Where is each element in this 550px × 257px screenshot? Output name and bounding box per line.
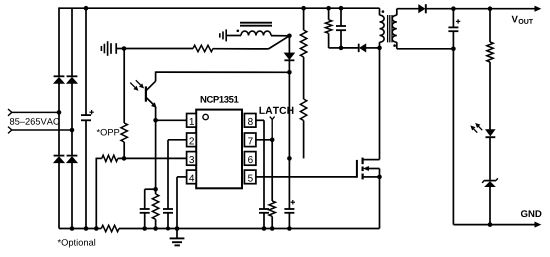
wire: R-fb to rail — [155, 219, 157, 228]
wire: AC input line 2 — [12, 129, 72, 131]
node: bulk cap to rail — [84, 226, 89, 231]
terminal arrow: AC line 1 — [8, 109, 12, 116]
wire: LED to zener — [489, 137, 491, 180]
wire: startup resistor to pin6 wire — [303, 121, 305, 159]
capacitor C-t (polarized, at pin 6 line) — [284, 209, 294, 213]
wire: pin 7 to latch node — [256, 139, 272, 141]
resistor R-hv2 (startup lower) — [300, 99, 306, 121]
label: *Optional — [58, 239, 95, 248]
wire: AC input line 1 — [12, 111, 59, 113]
capacitor C-p2 — [163, 209, 173, 213]
MOSFET Q1 channel segments — [362, 158, 364, 180]
ground: Vcc filter (rotated) with capacitor C-vcc — [101, 41, 107, 56]
node: secondary return junction — [451, 47, 456, 52]
node: drain/clamp/primary junction — [377, 46, 382, 51]
node: Vout rail to output cap — [451, 6, 456, 11]
light arrows: opto transistor — [130, 83, 135, 88]
node: C-fb rail junction — [142, 226, 147, 231]
node: emitter RC junction — [153, 187, 158, 192]
wire: Vaux to aux diode — [288, 36, 290, 53]
wire: Vcc node to series resistor — [124, 48, 193, 50]
wire: bridge left leg lower — [58, 163, 60, 229]
MOSFET Q1 drain connection — [364, 159, 380, 161]
label: Vout — [512, 16, 518, 23]
pin box: U1 pin 4 — [187, 170, 197, 184]
wire: clamp resistor lower stub — [328, 33, 330, 48]
wire: secondary return vertical — [452, 49, 454, 225]
wire: C-vcc2 to rail — [263, 213, 265, 229]
resistor R-cs (to pin 3) — [102, 155, 118, 161]
terminal arrow: Vout — [535, 6, 541, 11]
diode D3 (bridge, left lower) — [54, 155, 65, 157]
wire: aux diode to FB node — [288, 60, 290, 72]
wire: output cap lower stub — [452, 31, 454, 49]
core bars: aux winding — [240, 23, 272, 26]
plus sign: bulk cap polarity — [89, 110, 93, 114]
ground: IC ground symbol — [176, 229, 178, 239]
wire: pin 3 to OPP node — [124, 157, 187, 159]
wire: gate drive (pin 5 to gate) — [256, 176, 357, 178]
wire: bridge right leg upper — [71, 8, 73, 76]
capacitor C-vcc2 (pin 8) — [259, 209, 269, 213]
wire: pin 1 to opto emitter — [156, 119, 187, 121]
wire: C-p2 to rail — [167, 213, 169, 229]
node: Vcc/OPP node — [122, 46, 127, 51]
MOSFET Q1 source connection — [364, 176, 380, 178]
wire: bridge right leg lower — [71, 163, 73, 229]
IC U1 NCP1351 package body — [196, 110, 242, 189]
wire: secondary top corner — [396, 9, 398, 16]
wire: latch node to pulldown resistor — [271, 140, 273, 201]
node: pin3/OPP/R-cs junction — [122, 156, 127, 161]
wire: output diode to Vout rail — [426, 8, 536, 10]
diode D-clamp (pointing left) — [358, 44, 360, 52]
pin box: U1 pin 3 — [187, 152, 197, 166]
wire: R-hv upper stub — [303, 8, 305, 30]
wire: emitter node vertical — [155, 120, 157, 189]
resistor R-hv1 (startup upper) — [300, 30, 306, 57]
node: pin6 junction — [287, 156, 292, 161]
wire: primary bottom stub — [379, 42, 381, 48]
resistor R-clamp — [325, 20, 331, 34]
node: AC line 2 junction — [70, 128, 75, 133]
wire: pin 8 branch — [256, 119, 264, 121]
wire: R-cs to pin3 node — [118, 157, 124, 159]
wire: bridge right leg middle — [71, 83, 73, 155]
wire: feedback resistor to LED — [489, 62, 491, 130]
node: R-fb rail junction — [153, 226, 158, 231]
capacitor C1 (bulk) — [81, 115, 91, 120]
polarity dot: aux winding — [237, 30, 240, 33]
wire: FB vertical to pin6 row — [288, 72, 290, 158]
wire: clamp resistor upper stub — [328, 8, 330, 20]
diode D-aux (pointing down) — [284, 53, 294, 60]
pin box: U1 pin 7 — [244, 133, 256, 147]
ground: aux winding return — [220, 29, 226, 41]
zener diode Z1 (pointing up) — [484, 180, 496, 182]
node: feedback to secondary ground — [488, 222, 493, 227]
wire: series resistor to aux diagonal — [213, 48, 269, 50]
wire: pin 2 branch — [168, 139, 187, 141]
wire: R-latch to rail — [271, 216, 273, 228]
node: clamp RC junction — [339, 46, 344, 51]
node: AC line 1 junction — [57, 110, 62, 115]
wire: top rail corner into primary — [379, 8, 381, 15]
wire: sense branch stub — [96, 157, 102, 159]
node: opto emitter / pin 1 — [153, 118, 158, 123]
wire: aux winding to Vaux node — [271, 35, 289, 37]
capacitor C-out (output) — [448, 27, 458, 31]
inductor T1 primary winding — [380, 15, 385, 42]
wire: pin6 node down to timing cap — [288, 158, 290, 209]
pin box: U1 pin 6 — [244, 152, 256, 166]
resistor R-optional (sense, in ground rail) — [101, 225, 119, 231]
wire: bulk cap lower — [85, 120, 87, 228]
core bars: transformer T1 — [388, 15, 392, 42]
wire: bridge left leg middle — [58, 83, 60, 155]
node: top rail to clamp resistor — [326, 6, 331, 11]
optocoupler transistor: collector — [146, 81, 156, 91]
wire: clamp cap lower stub — [340, 30, 342, 48]
capacitor C-clamp — [336, 26, 346, 30]
wire: OPP vertical upper — [123, 49, 125, 124]
label: 85-265VAC — [10, 118, 59, 125]
node: top rail to clamp cap — [339, 6, 344, 11]
wire: pin 4 to ground — [177, 176, 187, 178]
node: Vout rail to feedback — [488, 6, 493, 11]
node: pin 4 ground junction — [175, 226, 180, 231]
capacitor C-fb — [140, 209, 150, 213]
resistor R-latch — [269, 201, 275, 216]
wire: bridge left leg upper — [58, 7, 60, 76]
resistor R-opp — [121, 123, 127, 142]
wire: secondary ground rail — [453, 224, 536, 226]
wire: source to ground rail — [379, 169, 381, 229]
wire: zener to ground rail — [489, 187, 491, 225]
node: C-p2 rail junction — [166, 227, 170, 231]
terminal arrow: GND — [535, 222, 541, 227]
node: source/body tie — [377, 175, 382, 180]
LED: optocoupler diode (pointing down) — [486, 130, 495, 136]
inductor T1 secondary winding — [392, 15, 397, 42]
resistor R-led — [487, 42, 493, 62]
MOSFET Q1 body arrow — [367, 168, 380, 170]
node: R-latch rail junction — [270, 226, 275, 231]
node: C-vcc2 rail junction — [262, 226, 267, 231]
diode D4 (bridge, right lower) — [67, 155, 78, 157]
plus sign: C-t polarity — [291, 200, 295, 204]
pin box: U1 pin 1 — [187, 114, 197, 128]
label: NCP1351 — [201, 96, 239, 103]
label: *OPP — [97, 129, 120, 136]
wire: clamp diode to drain node — [366, 47, 380, 49]
pin box: U1 pin 8 — [244, 114, 256, 128]
wire: secondary top to output diode — [397, 8, 419, 10]
diode D1 (bridge, left upper) — [54, 75, 65, 77]
wire: sense branch vertical — [95, 158, 97, 229]
plus sign: output cap — [456, 19, 460, 23]
wire: primary-side top rail — [59, 7, 380, 9]
wire: C-fb to rail — [144, 213, 146, 229]
wire: OPP vertical lower — [123, 142, 125, 158]
wire: clamp cap upper stub — [340, 8, 342, 26]
pin box: U1 pin 2 — [187, 133, 197, 147]
optocoupler transistor: emitter with arrow — [146, 97, 154, 105]
optocoupler transistor: base bar — [145, 86, 147, 101]
node: opto collector / FB pullup junction — [287, 70, 292, 75]
wire: C-t to ground rail — [288, 213, 290, 229]
resistor R-fb — [152, 194, 158, 219]
label: GND — [521, 210, 542, 217]
inductor L-aux (auxiliary winding) — [241, 31, 271, 35]
diode D-out (pointing right) — [419, 5, 425, 13]
node: sense divider to rail — [94, 226, 99, 231]
node: Vaux junction — [287, 34, 292, 39]
wire: bottom rail right — [119, 228, 380, 230]
wire: clamp node to diode — [341, 47, 358, 49]
wire: secondary bottom to return — [396, 42, 398, 49]
node: latch junction — [270, 138, 275, 143]
polarity dot: T1 primary — [382, 10, 385, 13]
terminal arrow: AC line 2 — [8, 127, 12, 134]
node: bridge leg 2 to rail — [70, 226, 75, 231]
wire: emitter resistor stub — [155, 189, 157, 194]
pin box: U1 pin 5 — [244, 170, 256, 184]
wire: output cap upper stub — [452, 9, 454, 28]
wire: RC branch to cap — [145, 188, 156, 190]
MOSFET Q1 gate bar — [356, 160, 358, 178]
pin-1 marker circle: U1 — [203, 114, 208, 119]
diode D2 (bridge, right upper) — [67, 75, 78, 77]
wire: feedback resistor upper stub — [489, 9, 491, 42]
terminal: LATCH antenna symbol — [270, 117, 275, 120]
resistor R-vcc (series) — [193, 45, 213, 51]
node: C-t rail junction — [287, 226, 292, 231]
light arrows: opto LED — [473, 128, 477, 133]
wire: bulk cap upper — [85, 8, 87, 115]
wire: between startup resistors — [303, 57, 305, 99]
wire: bottom rail left — [59, 228, 101, 230]
node: top rail to R-hv — [301, 6, 306, 11]
wire: opto collector to FB node — [156, 71, 290, 73]
polarity dot: T1 secondary — [393, 44, 396, 47]
label: LATCH — [259, 107, 293, 114]
node: top rail to bulk cap — [84, 6, 89, 11]
